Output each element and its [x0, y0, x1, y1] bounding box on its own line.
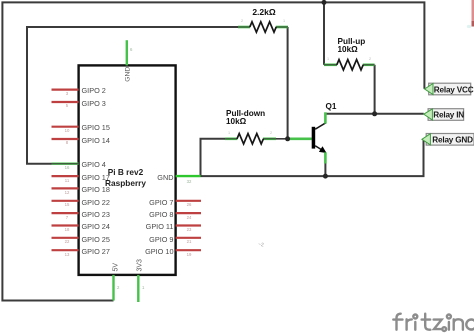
pin GPIO 25 — [52, 237, 79, 239]
pin number 15 left — [62, 202, 72, 207]
wire GPIO4 net: GPIO4 pin left, up, across to 2.2k resistor — [27, 27, 239, 164]
Q1 collector diagonal — [315, 123, 326, 129]
resistor pin mark 1 — [327, 57, 329, 61]
resistor pull-down 10k body — [225, 134, 276, 144]
transistor Q1 NPN — [289, 112, 327, 163]
pin label GPIO 7 right — [124, 198, 174, 207]
pin number 26 right — [183, 202, 195, 207]
pin 3V3 bottom (green) — [137, 275, 139, 302]
junction node: top rail / pull-up — [322, 0, 327, 5]
resistor pull-up 10k body — [324, 60, 375, 70]
relay connector J3 Relay GND — [422, 134, 474, 146]
pin label GPIO 9 right — [124, 235, 174, 244]
resistor pin mark 2 — [241, 19, 243, 23]
pin GPIO 4 (green, connected) — [52, 162, 79, 164]
pin label GPIO 4 left — [82, 160, 106, 169]
part label Pi B rev2 Raspberry — [85, 167, 166, 188]
pin label GPIO 15 left — [82, 123, 110, 132]
fritzing watermark logo — [393, 314, 474, 332]
pin GPIO 14 — [52, 138, 79, 140]
pin GPIO 18 — [52, 187, 79, 189]
pin GND right (green, connected) — [176, 175, 201, 177]
value label Pull-down 10kOhm — [226, 110, 265, 126]
svg-text:GND: GND — [125, 67, 132, 82]
resistor 2.2k lead 1 (green) — [238, 26, 250, 29]
pin number 8 left — [62, 140, 72, 145]
pin GPIO 11 — [176, 224, 201, 226]
pin label GPIO 14 left — [82, 136, 110, 145]
pin number 18 left — [62, 227, 72, 232]
value label Pull-up 10kOhm — [338, 38, 366, 54]
pin GPIO 15 — [52, 126, 79, 128]
pin number 19 right — [183, 252, 195, 257]
resistor 2.2k lead 2 (green) — [276, 26, 288, 29]
Q1 collector pin (green) — [324, 112, 327, 123]
pin GPIO 23 — [52, 212, 79, 214]
pin label GPIO 22 left — [82, 198, 110, 207]
pin GPIO 27 — [52, 249, 79, 251]
pin GPIO 22 — [52, 200, 79, 202]
junction node: emitter / ground rail — [323, 174, 328, 179]
pin label GPIO 18 left — [82, 185, 110, 194]
resistor pin mark 2 — [369, 57, 371, 61]
pin number 13 left — [62, 252, 72, 257]
junction node: base — [285, 136, 290, 141]
pull-down lead 1 (green) — [225, 138, 237, 141]
pin number 24 right — [183, 215, 195, 220]
pin number 11 left — [62, 178, 72, 183]
pin number top GND — [130, 47, 132, 52]
pin number 7 left — [62, 215, 72, 220]
label Q1 — [326, 102, 337, 111]
pin label GPIO 17 left — [82, 173, 110, 182]
relay connector J1 Relay VCC — [425, 83, 474, 95]
Q1 emitter diagonal — [315, 146, 325, 152]
pin number 16 left — [62, 165, 72, 170]
pin GPIO 24 — [52, 224, 79, 226]
pin number 23 right — [183, 227, 195, 232]
pin label GPIO 11 right — [124, 222, 174, 231]
pin label GIPO 3 left — [82, 99, 106, 108]
pin number 10 left — [62, 128, 72, 133]
pin GIPO 2 — [52, 88, 79, 90]
svg-text:3V3: 3V3 — [136, 259, 143, 272]
pin GIPO 3 — [52, 101, 79, 103]
wire 2.2k output down to base node — [287, 27, 289, 139]
pin label GPIO 10 right — [124, 247, 174, 256]
svg-text:Relay GND: Relay GND — [432, 136, 473, 145]
pin number 21 right — [183, 239, 195, 244]
Raspberry Pi U1 body — [79, 65, 176, 275]
wire emitter down to ground rail — [324, 160, 326, 176]
pull-down zigzag — [237, 134, 263, 144]
pin label GPIO 25 left — [82, 235, 110, 244]
wire pull-up top: from 5V top rail down to pull-up resistor — [323, 2, 325, 64]
resistor 2.2k zigzag — [250, 22, 276, 32]
value label 2.2kOhm — [239, 7, 289, 17]
junction node: collector / Relay IN — [372, 111, 377, 116]
resistor R1 2.2k body — [238, 22, 288, 32]
pull-up lead 2 (green) — [363, 64, 375, 67]
pin GPIO 7 — [176, 200, 201, 202]
wire ground rail: GND pin to emitter to Relay GND — [201, 139, 424, 176]
resistor pin mark 2 — [270, 131, 272, 135]
pin GPIO 9 — [176, 237, 201, 239]
relay connector J2 Relay IN — [424, 109, 465, 121]
wire GND pin up to pull-down resistor — [201, 139, 226, 176]
pin GPIO 8 — [176, 212, 201, 214]
pin label GND right — [124, 173, 174, 182]
pin label GPIO 23 left — [82, 210, 110, 219]
resistor pin mark 1 — [228, 131, 230, 135]
pin number 32 right — [183, 179, 195, 184]
wire 5V net: 5V pin to left, up, across top, down to Relay VCC — [2, 2, 424, 300]
pin GND top (green) — [126, 40, 128, 65]
svg-text:Relay IN: Relay IN — [433, 111, 464, 120]
wire base node segment — [276, 138, 312, 140]
pin number 5V — [117, 285, 119, 290]
pin label GPIO 27 left — [82, 247, 110, 256]
wire red stub top right edge — [471, 0, 474, 22]
pin number 12 left — [62, 190, 72, 195]
Q1 emitter pin (green) — [324, 152, 327, 163]
pin number 22 left — [62, 239, 72, 244]
Q1 base lead (green) — [289, 138, 312, 141]
pin number 5 left — [62, 103, 72, 108]
pin GPIO 17 — [52, 175, 79, 177]
pull-up zigzag — [337, 60, 363, 70]
svg-text:Relay VCC: Relay VCC — [434, 85, 474, 94]
resistor pin mark 1 — [283, 19, 285, 23]
pin GPIO 10 — [176, 249, 201, 251]
pin number 3 left — [62, 91, 72, 96]
pin number 3V3 — [142, 285, 144, 290]
Q1 base bar — [312, 127, 316, 149]
wire collector node to Relay IN — [325, 113, 423, 115]
Q1 emitter arrowhead — [319, 146, 327, 153]
pin 5V bottom (green) — [112, 275, 114, 301]
pull-down lead 2 (green) — [263, 138, 276, 141]
pin label GIPO 2 left — [82, 86, 106, 95]
stray tiny label 2 — [258, 242, 265, 249]
pin label GPIO 24 left — [82, 222, 110, 231]
svg-text:5V: 5V — [112, 263, 119, 272]
pin label GPIO 8 right — [124, 210, 174, 219]
wire pull-up bottom: resistor down to collector node — [374, 65, 376, 114]
pull-up lead 1 (green) — [324, 64, 337, 67]
